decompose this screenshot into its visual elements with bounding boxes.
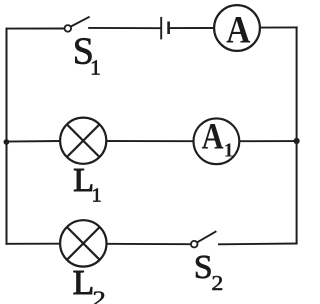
junction right (right rail / middle branch)	[294, 138, 300, 144]
svg-text:S: S	[194, 249, 213, 286]
ammeter A	[214, 5, 260, 51]
switch S1	[65, 17, 90, 32]
svg-text:1: 1	[224, 140, 234, 162]
wire top-left (battery to S1 feed)	[6, 28, 65, 30]
svg-text:2: 2	[211, 271, 223, 295]
lamp L1	[60, 118, 106, 164]
wire middle-left (rail to L1)	[6, 140, 61, 143]
wire left vertical (node between branches)	[6, 28, 8, 245]
label L2	[73, 263, 106, 304]
wire top middle (S1 to battery)	[88, 27, 160, 29]
svg-text:L: L	[73, 263, 94, 302]
wire right vertical rail	[296, 26, 298, 244]
label S1	[73, 31, 101, 80]
label S2	[194, 249, 224, 295]
wire top (battery to ammeter A)	[170, 27, 215, 29]
wire bottom middle (L2 to S2)	[107, 243, 191, 245]
svg-text:A: A	[226, 8, 250, 51]
wire middle-right (A1 to right rail)	[239, 140, 296, 142]
wire middle (L1 to ammeter A1)	[106, 140, 193, 142]
label L1	[73, 162, 101, 207]
junction left (left rail / middle branch)	[4, 139, 10, 145]
wire bottom-right (S2 to right rail)	[218, 243, 298, 246]
ammeter A1	[194, 116, 240, 164]
svg-text:1: 1	[92, 185, 102, 207]
lamp L2	[60, 220, 106, 266]
svg-text:2: 2	[92, 286, 106, 304]
wire top-right (ammeter A to right rail)	[260, 26, 298, 28]
battery (cell)	[161, 17, 168, 40]
switch S2	[191, 231, 217, 247]
wire bottom-left (rail to L2)	[6, 243, 61, 245]
svg-text:1: 1	[90, 56, 101, 80]
svg-text:A: A	[202, 116, 224, 157]
